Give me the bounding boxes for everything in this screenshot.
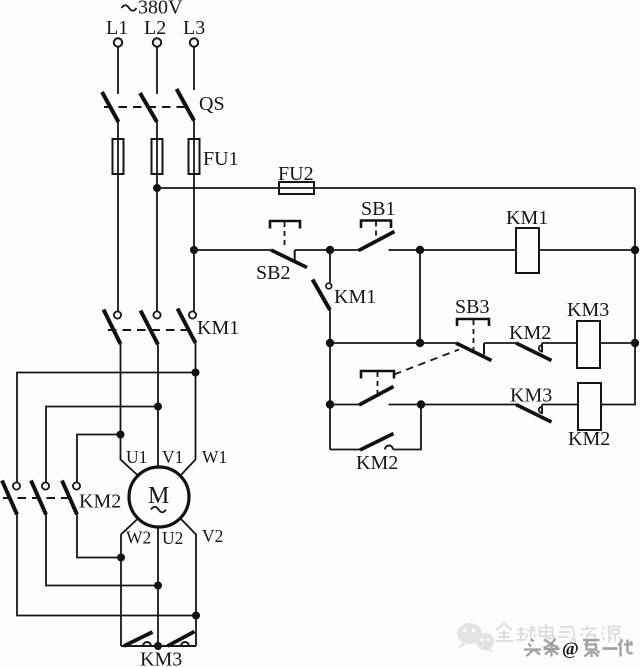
svg-text:KM1: KM1 xyxy=(506,207,548,229)
wire node B to KM1 coil xyxy=(420,249,516,251)
wire node E down to bypass rung xyxy=(329,405,331,450)
wire KM3 coil to right bus xyxy=(600,342,635,344)
wire SB1 to node B xyxy=(389,249,421,251)
wire node A to SB1 xyxy=(330,249,359,251)
wire bypass rung to node F xyxy=(393,405,421,450)
node B xyxy=(416,246,424,254)
wire crossover U1 to KM2 pole 3 xyxy=(77,435,121,483)
svg-text:V1: V1 xyxy=(162,447,183,467)
svg-text:KM2: KM2 xyxy=(568,428,610,450)
svg-text:SB2: SB2 xyxy=(256,262,290,284)
pushbutton SB3 NC pole xyxy=(455,296,492,361)
svg-text:KM1: KM1 xyxy=(334,286,376,308)
terminal L1 xyxy=(106,17,128,47)
node W1 crossover junction xyxy=(192,369,200,377)
wire SB3 NO to node F xyxy=(389,404,422,406)
node E rung 3 left xyxy=(326,400,334,408)
fuse FU1 xyxy=(113,139,239,174)
wire FU1 to KM1 phase 1 xyxy=(117,174,119,312)
node V2 junction xyxy=(192,612,200,620)
wire rung 2 to SB3 xyxy=(330,342,456,344)
wire QS to FU1 phase 3 xyxy=(193,120,195,139)
contact KM2 NC interlock xyxy=(509,322,552,361)
node U2 junction xyxy=(154,582,162,590)
wire FU1 to KM1 phase 2 xyxy=(156,174,158,312)
node W2 junction xyxy=(117,554,125,562)
svg-text:QS: QS xyxy=(199,93,225,115)
terminal L3 xyxy=(183,17,205,47)
wire KM1 coil to right bus xyxy=(539,249,635,251)
wire KM1 to motor lead V1 xyxy=(157,345,159,468)
wire SB2 to node A xyxy=(295,249,330,251)
contactor KM2 main contacts xyxy=(2,481,121,515)
wire L3 to QS xyxy=(193,47,195,90)
wire L1 to QS xyxy=(117,47,119,94)
svg-text:380V: 380V xyxy=(138,0,183,19)
contactor KM1 main contacts xyxy=(104,309,240,345)
wire SB3 NC to KM2 NC xyxy=(484,342,516,344)
watermark wechat icon xyxy=(457,623,494,653)
wire node C down to rung 3 xyxy=(329,343,331,405)
pushbutton SB3 NO pole xyxy=(359,371,394,405)
node control tap L2 xyxy=(153,184,161,192)
wire KM1 to motor lead U1 xyxy=(121,344,139,476)
wire KM2 pole 1 to V2 node xyxy=(17,515,196,616)
wire crossover W1 to KM2 pole 1 xyxy=(17,373,196,483)
wire FU1 to KM1 phase 3 xyxy=(193,174,195,312)
svg-text:KM3: KM3 xyxy=(140,649,182,667)
coil KM3 xyxy=(567,299,609,368)
watermark text quanqiu dianqi ziyuan xyxy=(496,624,622,645)
svg-text:KM3: KM3 xyxy=(567,299,609,321)
fuse FU2 xyxy=(278,163,314,194)
wire rung 3 to SB3 NO xyxy=(330,404,359,406)
wire KM1 to motor lead W1 xyxy=(180,343,196,476)
wire L3 tap to SB2 xyxy=(194,249,271,251)
svg-text:V2: V2 xyxy=(202,526,223,546)
svg-text:SB1: SB1 xyxy=(361,198,395,220)
svg-text:L1: L1 xyxy=(106,17,128,39)
svg-text:FU1: FU1 xyxy=(203,148,239,170)
label ~380V supply xyxy=(122,0,184,19)
svg-text:KM2: KM2 xyxy=(509,322,551,344)
node V1 crossover junction xyxy=(154,403,162,411)
node C rung 2 left xyxy=(326,339,334,347)
svg-text:KM2: KM2 xyxy=(356,452,398,474)
contact KM2 auxiliary NO self-hold xyxy=(330,434,398,475)
svg-text:SB3: SB3 xyxy=(455,296,489,318)
wire node B down to rung 2 xyxy=(419,250,421,343)
node F rung 3 xyxy=(417,400,425,408)
contact KM1 auxiliary NO xyxy=(313,250,377,343)
contactor KM3 star contacts xyxy=(121,632,196,667)
contact KM3 NC interlock xyxy=(510,385,552,423)
node U1 crossover junction xyxy=(117,431,125,439)
svg-text:L3: L3 xyxy=(183,17,205,39)
svg-text:KM3: KM3 xyxy=(510,385,552,407)
wire right control bus xyxy=(634,188,636,405)
wire motor W2 lead down xyxy=(121,518,139,646)
wire KM2 pole 3 to W2 node xyxy=(77,515,121,558)
wire motor U2 lead down xyxy=(157,527,159,646)
watermark text toutiao at beng yi dai xyxy=(524,639,633,658)
svg-text:KM2: KM2 xyxy=(79,491,121,513)
wire KM3 NC to KM2 coil xyxy=(542,404,578,406)
svg-text:M: M xyxy=(148,483,169,509)
wire L2 to QS xyxy=(156,47,158,94)
node D rung 2 xyxy=(416,339,424,347)
wire node F to KM3 NC xyxy=(421,404,516,406)
wire QS to FU1 phase 2 xyxy=(156,122,158,139)
wire motor V2 lead down xyxy=(180,518,196,646)
coil KM1 xyxy=(506,207,548,273)
svg-text:@: @ xyxy=(562,639,579,659)
wire KM2 coil to right bus corner xyxy=(601,404,636,406)
wire L2 tap to FU2 and top bus xyxy=(157,187,635,189)
svg-text:W2: W2 xyxy=(126,528,151,548)
pushbutton SB2 (NC stop) xyxy=(256,221,307,284)
svg-text:W1: W1 xyxy=(202,447,227,467)
wire crossover V1 to KM2 pole 2 xyxy=(46,407,158,483)
svg-text:KM1: KM1 xyxy=(197,317,239,339)
mechanical link SB3 poles xyxy=(394,350,459,375)
svg-text:L2: L2 xyxy=(144,17,166,39)
wire KM2 NC to KM3 coil xyxy=(542,342,577,344)
svg-text:U1: U1 xyxy=(126,447,147,467)
pushbutton SB1 (NO start) xyxy=(359,198,396,251)
wire KM2 pole 2 to U2 node xyxy=(46,515,158,586)
terminal L2 xyxy=(144,17,166,47)
node A xyxy=(326,246,334,254)
motor M xyxy=(129,467,189,527)
node right bus rung 1 xyxy=(631,246,639,254)
svg-text:U2: U2 xyxy=(162,528,183,548)
svg-text:FU2: FU2 xyxy=(278,163,314,185)
coil KM2 xyxy=(568,383,610,450)
node right bus rung 2 xyxy=(631,339,639,347)
node control tap L3 xyxy=(190,246,198,254)
disconnect switch QS xyxy=(102,89,225,122)
wire QS to FU1 phase 1 xyxy=(117,122,119,139)
